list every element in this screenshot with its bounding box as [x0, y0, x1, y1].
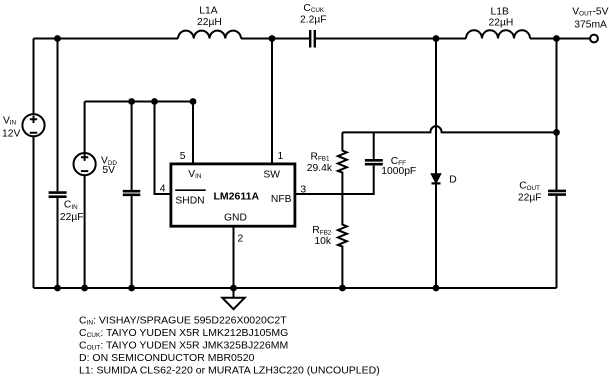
svg-text:22µF: 22µF: [518, 193, 542, 204]
resistor RFB2: [338, 194, 347, 288]
svg-text:CIN: CIN: [64, 200, 78, 211]
junction bottom rail at GND pin: [230, 285, 237, 292]
inductor L1B: [466, 30, 530, 38]
wire feedback top with hop over diode branch: [342, 126, 556, 132]
junction feedback node at COUT: [553, 129, 560, 136]
junction bottom rail at VDD: [81, 285, 88, 292]
wire SHDN pin4: [155, 102, 171, 195]
wire VDD rail to pin5: [85, 101, 193, 103]
junction top rail at diode: [433, 35, 440, 42]
wire pin3 NFB to feedback node: [295, 166, 374, 194]
svg-text:12V: 12V: [2, 129, 20, 140]
junction VDD rail at pin5: [190, 98, 197, 105]
wire pin5 VIN: [192, 102, 194, 165]
svg-text:CCUK: TAIYO YUDEN X5R LMK212BJ: CCUK: TAIYO YUDEN X5R LMK212BJ105MG: [79, 327, 288, 339]
junction top rail at CIN: [54, 35, 61, 42]
terminal VOUT: [590, 35, 598, 43]
svg-text:2: 2: [238, 233, 244, 244]
wire CCUK to L1B: [316, 38, 466, 40]
capacitor CIN branch wire: [57, 39, 59, 192]
svg-text:SW: SW: [263, 169, 280, 180]
source VDD: [84, 102, 86, 154]
svg-text:RFB1: RFB1: [311, 151, 330, 162]
IC U1 LM2611A: [171, 164, 295, 226]
junction VDD rail at bypass cap: [128, 98, 135, 105]
svg-text:L1: SUMIDA CLS62-220 or MURATA: L1: SUMIDA CLS62-220 or MURATA LZH3C220 …: [79, 365, 380, 376]
svg-text:1: 1: [278, 151, 284, 162]
notes text: [79, 314, 380, 376]
svg-text:CIN: VISHAY/SPRAGUE 595D226X00: CIN: VISHAY/SPRAGUE 595D226X0020C2T: [79, 314, 287, 326]
junction top rail at SW: [269, 35, 276, 42]
wire pin1 SW: [271, 39, 273, 165]
ground: [233, 288, 235, 298]
svg-text:5V: 5V: [102, 165, 115, 176]
wire L1A to CCUK: [241, 38, 309, 40]
junction bottom rail at bypass cap: [128, 285, 135, 292]
svg-text:29.4k: 29.4k: [307, 163, 333, 174]
svg-text:2.2µF: 2.2µF: [300, 14, 327, 25]
svg-text:5: 5: [180, 151, 186, 162]
wire pin2 GND: [233, 226, 235, 288]
svg-text:GND: GND: [224, 213, 247, 224]
svg-text:1000pF: 1000pF: [381, 166, 416, 177]
source VIN: [33, 39, 35, 115]
svg-text:SHDN: SHDN: [175, 196, 204, 207]
svg-text:L1B: L1B: [491, 7, 509, 18]
junction bottom rail at RFB2: [339, 285, 346, 292]
svg-text:10k: 10k: [314, 236, 331, 247]
svg-text:COUT: TAIYO YUDEN X5R JMK325BJ: COUT: TAIYO YUDEN X5R JMK325BJ226MM: [79, 339, 288, 351]
svg-text:NFB: NFB: [271, 194, 292, 205]
svg-text:D: ON SEMICONDUCTOR MBR0520: D: ON SEMICONDUCTOR MBR0520: [79, 352, 255, 364]
svg-text:VOUT-5V: VOUT-5V: [572, 6, 608, 17]
svg-text:RFB2: RFB2: [312, 225, 331, 236]
capacitor CCUK: [310, 30, 315, 48]
svg-text:VIN: VIN: [3, 115, 17, 126]
svg-text:COUT: COUT: [519, 181, 540, 192]
svg-text:375mA: 375mA: [574, 20, 607, 31]
svg-text:D: D: [449, 174, 456, 185]
junction top rail at COUT: [553, 35, 560, 42]
capacitor CIN: [49, 193, 67, 197]
svg-text:4: 4: [160, 183, 166, 194]
svg-text:22µH: 22µH: [489, 18, 514, 29]
diode D: [435, 39, 437, 175]
capacitor bypass: [123, 191, 141, 195]
junction bottom rail at CIN: [54, 285, 61, 292]
junction bottom rail at diode: [433, 285, 440, 292]
capacitor CFF: [373, 132, 375, 159]
svg-text:LM2611A: LM2611A: [214, 190, 260, 202]
wire L1B to VOUT terminal: [530, 38, 590, 40]
capacitor COUT: [548, 191, 566, 195]
wire bottom rail: [34, 287, 557, 289]
svg-text:22µF: 22µF: [60, 212, 84, 223]
svg-text:L1A: L1A: [199, 5, 217, 16]
svg-text:22µH: 22µH: [197, 17, 222, 28]
capacitor COUT branch wire: [556, 39, 558, 190]
junction VDD rail at SHDN: [151, 98, 158, 105]
svg-text:CCUK: CCUK: [303, 3, 325, 14]
svg-text:3: 3: [300, 184, 306, 195]
resistor RFB1: [338, 132, 347, 194]
wire top rail: VIN corner to L1A: [34, 38, 179, 40]
inductor L1A: [178, 31, 241, 39]
capacitor bypass branch wire: [131, 102, 133, 190]
